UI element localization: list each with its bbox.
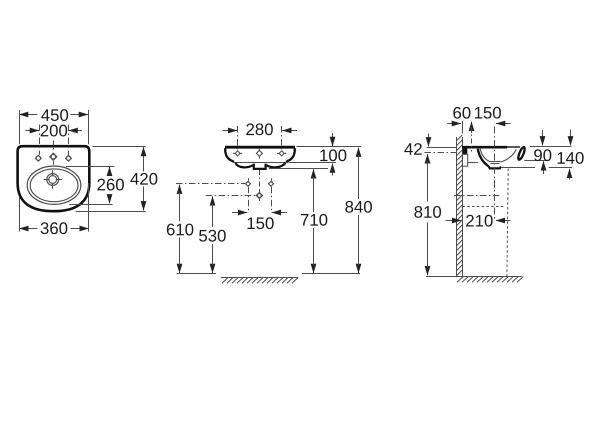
label 200: [41, 125, 68, 137]
floor hatch band (front): [221, 277, 298, 283]
centerline through right tap hole: [68, 125, 70, 155]
basin outline (plan): [18, 146, 90, 211]
label 140: [558, 152, 584, 164]
dimension 810 line+arrows: [427, 154, 429, 161]
label 840: [345, 201, 372, 213]
centerline 280 right: [281, 126, 283, 150]
centerline 280 left: [237, 126, 239, 150]
label 150 (front): [248, 217, 274, 229]
basin right side (front): [286, 148, 295, 162]
dimension 360 line+arrows: [19, 228, 37, 230]
fixing bolt (side, black): [463, 148, 468, 155]
dimension 140 top arrow: [570, 130, 572, 146]
710 top extension line: [269, 168, 328, 170]
extension line 360 right: [88, 183, 90, 232]
530-level centerline (side): [454, 195, 499, 197]
center line from drain box to drain hole: [259, 170, 261, 190]
centerline below right fixing hole: [271, 187, 273, 213]
wall section edges: [457, 137, 463, 276]
dimension 280 arrows: [222, 130, 237, 132]
extension line 420 bottom: [76, 211, 146, 213]
basin left side (front): [225, 148, 234, 162]
basin underside line to front: [501, 167, 535, 169]
bowl front inner (side): [500, 150, 516, 163]
tap hole center (front): [256, 148, 262, 158]
dimension 150 arrows (front): [232, 212, 247, 214]
tap hole left (plan): [35, 155, 41, 161]
bowl back outer (side): [478, 149, 489, 166]
label 100: [320, 149, 346, 161]
dimension 210 arrows: [446, 220, 462, 222]
extension line 450 right: [88, 110, 90, 144]
extension line wall face top (60): [462, 121, 464, 134]
drain hole diamond (front): [256, 190, 262, 201]
extension line 42 top: [427, 147, 457, 149]
100 bottom extension line: [289, 162, 336, 164]
basin rim (front): [225, 146, 295, 149]
dimension 60 left arrow: [447, 123, 461, 125]
drain boss (side): [489, 166, 501, 168]
label 450: [41, 109, 68, 121]
basin front lip (side): [517, 146, 526, 160]
basin rim line (side): [462, 146, 507, 149]
dimension 140 bottom arrow: [569, 169, 571, 180]
extension line 450 left: [19, 110, 21, 144]
tap hole center (plan): [50, 153, 57, 165]
tap hole right (front): [277, 151, 286, 156]
extension line 260 bottom: [69, 204, 112, 206]
scallop arc right (front): [266, 163, 285, 168]
bowl back inner (side): [480, 149, 490, 162]
dimension 420 line+arrows: [143, 147, 145, 158]
centerline through center tap hole: [53, 141, 55, 153]
wall hatching: [456, 135, 462, 276]
dimension 90 bottom arrow: [543, 161, 545, 174]
label 710: [301, 214, 328, 226]
drain box (front): [254, 164, 266, 169]
extension line 260 top: [66, 166, 115, 168]
drain circles (plan): [47, 174, 59, 186]
apron lower thin line (front): [234, 162, 289, 164]
fixing hole centerline vertical (side) with up arrow: [471, 122, 473, 133]
bowl inner ellipse (plan): [30, 169, 78, 202]
90 bottom extension line: [524, 160, 547, 162]
trap hidden line (side): [462, 206, 505, 208]
140 bottom extension line: [549, 167, 572, 169]
dimension 610 line+arrows: [179, 185, 181, 193]
centerline below left fixing hole: [248, 187, 250, 213]
dimension 450 line+arrows: [19, 114, 38, 116]
floor line left (front): [177, 273, 216, 275]
floor line right (front): [302, 273, 360, 275]
label 210: [466, 215, 493, 227]
rim extension line right (side): [530, 146, 571, 148]
dimension 90 top arrow: [542, 130, 544, 145]
label 530: [199, 230, 226, 242]
floor line (side): [426, 276, 522, 278]
fixing holes height centerline (610 level): [176, 183, 245, 185]
fixing hole left diamond: [246, 181, 251, 186]
dimension 260 arrows: [109, 167, 111, 174]
dimension 710 line+arrows: [313, 169, 315, 176]
extension line 420 top: [93, 146, 146, 148]
label 610: [167, 224, 194, 236]
dimension 200 arrows: [26, 130, 40, 132]
drain crosshair ticks: [44, 170, 62, 188]
tap hole right (plan): [66, 155, 72, 161]
label 90: [534, 149, 551, 161]
extension line 360 left: [19, 197, 21, 232]
dimension 42 down arrow: [428, 134, 430, 147]
underside line back (side): [468, 162, 478, 164]
floor hatch (side): [457, 277, 523, 283]
rim extension line right (front): [297, 146, 362, 148]
waste pipe hidden line (side): [507, 169, 508, 277]
bowl outer ellipse (plan): [27, 166, 81, 204]
dimension 530 line+arrows: [212, 196, 214, 204]
label 42: [404, 143, 421, 155]
label 260: [97, 179, 124, 191]
fixing hole right diamond: [269, 181, 274, 186]
dimension 100 arrows: [332, 133, 334, 146]
tick above left fixing hole: [248, 178, 250, 181]
42-level fixing centerline (side): [425, 152, 457, 154]
label 420: [130, 173, 157, 185]
label 150 (side): [475, 107, 501, 119]
dimension 150 right arrow (side): [496, 123, 511, 125]
label 280: [246, 123, 273, 135]
dimension 840 line+arrows: [358, 148, 360, 155]
centerline through left tap hole: [39, 125, 41, 155]
drain centerline vertical (side): [494, 127, 496, 221]
bracket outline (side): [462, 154, 467, 166]
scallop arc left (front): [236, 163, 254, 168]
bowl bottom recess lines (side): [490, 162, 501, 164]
drain height centerline (530 level): [206, 195, 256, 197]
label 360: [41, 222, 68, 234]
tap hole left (front): [233, 151, 242, 156]
label 810: [414, 206, 441, 218]
tick above right fixing hole: [271, 178, 273, 181]
label 60: [453, 107, 470, 119]
